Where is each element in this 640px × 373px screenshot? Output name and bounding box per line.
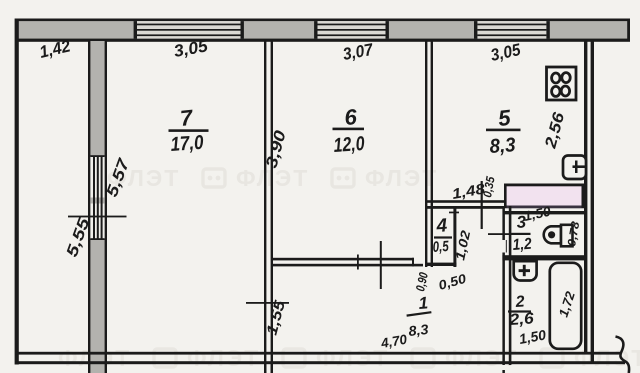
svg-text:12,0: 12,0 bbox=[333, 133, 365, 157]
interior bearing wall (gray, left) bbox=[88, 41, 107, 373]
window W1 (room 7) bbox=[134, 21, 244, 38]
top outer wall bbox=[15, 19, 630, 42]
svg-text:ФЛЭТ: ФЛЭТ bbox=[187, 345, 260, 371]
kitchen bottom wall / closet top (double line) bbox=[425, 200, 504, 209]
dim tick 1,55 bbox=[246, 302, 289, 304]
stove icon bbox=[547, 67, 577, 100]
bath 2 label bbox=[508, 293, 534, 329]
watermark row middle bbox=[107, 165, 438, 191]
watermark row bottom bbox=[58, 345, 640, 371]
toilet 3 label bbox=[512, 212, 533, 254]
dim tick 5,57/5,55 bbox=[68, 216, 127, 218]
closet 4 right wall bbox=[453, 206, 456, 267]
bath sink icon bbox=[514, 261, 537, 280]
room 5 label bbox=[486, 105, 521, 158]
tick on wall bbox=[357, 255, 359, 270]
wall 7/6 stub below bottom wall bbox=[264, 364, 273, 373]
window W2 (room 6) bbox=[314, 21, 389, 38]
bathtub icon bbox=[550, 263, 581, 349]
svg-text:1: 1 bbox=[418, 293, 429, 313]
hall 1 label bbox=[406, 293, 431, 339]
WC icon bbox=[544, 225, 573, 247]
dim tick 1,02 bbox=[488, 233, 512, 235]
toilet 3 top wall bbox=[503, 211, 585, 214]
svg-text:8,3: 8,3 bbox=[408, 321, 430, 339]
right outer wall (double line) bbox=[584, 41, 594, 362]
svg-text:2: 2 bbox=[514, 293, 525, 311]
svg-text:ФЛЭТ: ФЛЭТ bbox=[445, 345, 518, 371]
svg-text:0,5: 0,5 bbox=[432, 238, 450, 256]
svg-text:4: 4 bbox=[435, 215, 448, 237]
svg-text:17,0: 17,0 bbox=[170, 132, 204, 156]
window W3 (kitchen) bbox=[474, 21, 550, 38]
room 7 label bbox=[169, 105, 209, 156]
svg-text:ФЛЭТ: ФЛЭТ bbox=[316, 345, 389, 371]
entry curve bottom right bbox=[616, 337, 630, 373]
left outer wall bbox=[15, 19, 19, 365]
dim tick 1,48/0,35 bbox=[481, 181, 483, 229]
room 6 bottom wall with door gap bbox=[272, 258, 423, 267]
room 6 label bbox=[333, 104, 366, 157]
svg-text:2,6: 2,6 bbox=[508, 310, 534, 329]
svg-text:1,2: 1,2 bbox=[512, 236, 532, 254]
wall between room 7 and rooms 6/1 (double line) bbox=[264, 41, 273, 373]
small tick bbox=[449, 212, 459, 214]
vent shaft section in bearing wall bbox=[90, 155, 104, 240]
pink wall block bbox=[504, 184, 584, 209]
hall/toilet/bath wall (double line with door gap) bbox=[502, 206, 511, 373]
wall between room 6 and kitchen 5 (double line) bbox=[425, 41, 433, 267]
closet 4 bottom wall bbox=[425, 263, 456, 266]
closet 4 label bbox=[432, 215, 452, 256]
kitchen sink icon bbox=[563, 156, 586, 180]
svg-text:8,3: 8,3 bbox=[489, 134, 516, 158]
bottom outer wall (two lines) bbox=[15, 352, 625, 364]
dim tick 0,90 bbox=[380, 241, 382, 289]
toilet/bath divider wall bbox=[502, 255, 585, 260]
